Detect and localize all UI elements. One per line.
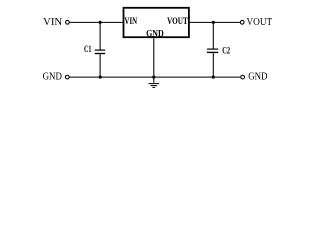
svg-text:VOUT: VOUT	[247, 16, 273, 28]
svg-text:C2: C2	[222, 46, 230, 56]
wire U1 to VOUT terminal	[189, 21, 240, 23]
wire U1 GND pin down	[153, 37, 155, 83]
op-amp U1 regulator box	[124, 8, 189, 37]
svg-text:GND: GND	[146, 28, 164, 38]
svg-text:GND: GND	[248, 71, 267, 83]
wire C2 branch lower	[212, 52, 214, 77]
svg-text:C1: C1	[84, 44, 92, 54]
svg-text:GND: GND	[43, 71, 62, 83]
ground	[149, 84, 160, 88]
wire C1 branch upper	[99, 22, 101, 50]
terminal VIN	[66, 20, 70, 24]
wire C1 branch lower	[99, 54, 101, 78]
junction dot bottom-center	[152, 76, 155, 79]
terminal GND right	[241, 75, 245, 79]
junction dot bottom-left	[99, 76, 102, 79]
svg-text:VIN: VIN	[43, 16, 62, 28]
capacitor C2	[207, 49, 218, 52]
capacitor C1	[95, 50, 106, 53]
terminal VOUT	[240, 20, 244, 24]
junction dot top-left	[99, 21, 102, 24]
terminal GND left	[65, 75, 69, 79]
junction dot top-right	[212, 21, 215, 24]
wire ground bus	[70, 76, 241, 78]
wire C2 branch upper	[212, 22, 214, 49]
svg-text:VIN: VIN	[125, 16, 138, 26]
svg-text:VOUT: VOUT	[167, 16, 188, 26]
wire VIN terminal to U1	[70, 21, 124, 23]
junction dot bottom-right	[212, 76, 215, 79]
